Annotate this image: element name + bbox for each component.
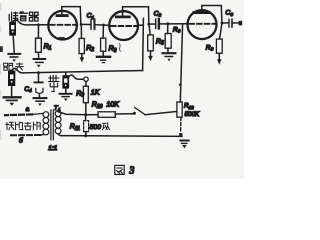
node plate V1 — [80, 23, 83, 26]
wire: node to tube V1 grid — [37, 24, 49, 26]
resistor R12 — [177, 102, 182, 117]
wire: plate node down to R2 — [80, 25, 82, 39]
wire: V3 plate up and over to C3 — [202, 6, 222, 23]
wire: plate node V2 down to R5 — [149, 24, 150, 35]
node plate V2 — [147, 23, 150, 26]
resistor R3 — [101, 38, 106, 51]
input jack J3 — [62, 75, 69, 88]
wire: mic to grid node — [13, 20, 37, 25]
text 微音器 (microphone label) — [9, 12, 38, 21]
output terminal — [239, 21, 243, 26]
ground under R6 — [162, 52, 175, 54]
svg-text:R9: R9 — [76, 90, 84, 98]
wire transformer to node — [58, 112, 85, 115]
V2 grid (dashed) — [111, 25, 137, 27]
wire switch to R12 — [145, 111, 177, 114]
node plate V3 — [221, 22, 224, 25]
wire C3 to output terminal — [233, 22, 239, 24]
tube V3 — [188, 10, 217, 39]
svg-text:R2: R2 — [86, 45, 94, 53]
capacitor C3 — [228, 19, 230, 27]
B+ arrow under R5 — [148, 56, 153, 61]
resistor R6 — [165, 34, 171, 49]
resistor R11 (dashed) — [85, 115, 87, 121]
wire: grid node down to R3 — [102, 25, 104, 38]
svg-text:R5: R5 — [156, 38, 164, 46]
ground at rail end — [180, 140, 188, 142]
tube V2 — [109, 11, 138, 40]
wire R3 to ground — [102, 51, 104, 55]
svg-text:500: 500 — [90, 124, 102, 131]
wire J3 to ground — [65, 89, 67, 93]
caption 图 3 — [115, 165, 124, 174]
wire node to C3 — [222, 22, 228, 24]
wire: V2 right stub down — [142, 18, 145, 70]
wire primary top (dashed line a) — [33, 112, 43, 115]
switch blade — [135, 107, 146, 114]
ground under mic — [13, 36, 14, 53]
node C4 — [37, 71, 40, 74]
T1 primary winding — [43, 112, 49, 118]
svg-text:3: 3 — [128, 165, 134, 176]
B+ arrow under R2 — [80, 57, 85, 62]
rail joint blob — [179, 133, 182, 137]
wire C1 to V2 grid — [95, 24, 109, 27]
wire primary bottom (dashed line b) — [40, 134, 43, 136]
wire: J3 to terminal circle — [69, 75, 83, 79]
V1 grid (dashed) — [50, 24, 76, 26]
wire: V3 grid line down to R12 — [180, 24, 182, 102]
node R11 rail — [84, 134, 87, 137]
text 带 (input label) — [49, 75, 59, 91]
wire: plate node V3 down to R8 — [220, 23, 222, 39]
svg-text:R1: R1 — [44, 43, 52, 51]
text 接收音机 (line input label) — [6, 122, 40, 130]
svg-text:a: a — [26, 106, 30, 113]
wire node to R10 — [86, 114, 98, 116]
V3 plate — [194, 11, 208, 14]
phono jack J2 — [8, 71, 15, 86]
wire R6 to ground — [167, 48, 169, 53]
B+ arrow under R8 — [217, 59, 221, 65]
node R9/R10/R11 — [84, 113, 87, 116]
wire R12 dashed to rail — [180, 117, 182, 132]
wire node to V3 grid — [168, 23, 188, 25]
wire: node down to R1 — [37, 25, 39, 38]
nub on wire — [179, 84, 181, 86]
svg-text:1:1: 1:1 — [48, 145, 57, 152]
V2 cathode squiggle — [119, 44, 121, 52]
ground under C4 — [34, 97, 47, 99]
wire J2 to ground — [11, 86, 13, 96]
wire C2 to R6 node — [160, 23, 168, 25]
wire R5 to B+ arrow — [150, 51, 152, 56]
frame mark left edge — [0, 3, 3, 140]
terminal circle node — [84, 77, 88, 81]
wire C4 to ground — [38, 95, 40, 97]
resistor R2 — [79, 38, 84, 53]
ground under J2 — [4, 96, 21, 98]
V1 cathode bump — [59, 37, 63, 39]
capacitor C4 (electrolytic) — [35, 81, 43, 83]
wire: V1 plate up and over to C1 — [62, 7, 81, 24]
wire R2 to B+ arrow — [81, 54, 83, 58]
switch contact — [133, 112, 136, 115]
wire R8 to B+ arrow — [218, 53, 220, 59]
V2 grid stub right — [138, 24, 144, 26]
V2 plate — [116, 15, 129, 18]
resistor R10 (horizontal) — [98, 112, 115, 118]
wire R1 to ground — [37, 52, 39, 58]
node grid V3 / R6 — [166, 22, 169, 25]
wire circle to R9 — [85, 81, 87, 86]
svg-text:R3: R3 — [109, 46, 117, 54]
svg-text:1K: 1K — [91, 90, 100, 97]
capacitor C2 — [155, 19, 157, 28]
secondary bottom lead — [58, 134, 62, 136]
resistor R5 — [148, 35, 154, 51]
wire J3 stub to mid wire — [65, 73, 67, 75]
svg-text:R11: R11 — [70, 124, 80, 132]
resistor R1 — [36, 38, 42, 52]
svg-text:R10 10K: R10 10K — [92, 102, 119, 110]
node grid V2 — [102, 24, 105, 27]
ground under R3 — [97, 56, 110, 58]
wire node to C2 — [149, 23, 155, 25]
V3 grid (dashed) — [189, 23, 214, 25]
wire node down to C4 — [38, 73, 40, 82]
bottom rail — [61, 135, 182, 138]
ground under J3 — [60, 93, 72, 95]
wire: V2 plate up and over to C2 — [123, 7, 149, 24]
resistor R9 — [83, 86, 88, 103]
wire R10 to switch — [115, 113, 133, 115]
text 唱头 (phono label) — [4, 63, 24, 70]
wire: J2 to mid wire — [12, 69, 23, 73]
svg-text:б: б — [19, 137, 23, 145]
capacitor C1 — [90, 20, 92, 30]
microphone jack J1 — [9, 22, 16, 36]
transformer T1 core — [51, 110, 53, 140]
node grid V1 — [37, 23, 40, 26]
tube V1 — [48, 11, 77, 40]
wire node down to R6 — [167, 24, 169, 34]
svg-text:500K: 500K — [185, 111, 200, 118]
wire R9 to junction — [85, 103, 87, 115]
wire node to C1 — [81, 23, 90, 25]
wire: mid signal wire to V2 — [23, 71, 143, 73]
resistor R8 — [216, 39, 222, 53]
ground under R1 — [34, 58, 46, 60]
V1 plate — [57, 14, 67, 17]
T1 secondary winding — [55, 111, 61, 117]
